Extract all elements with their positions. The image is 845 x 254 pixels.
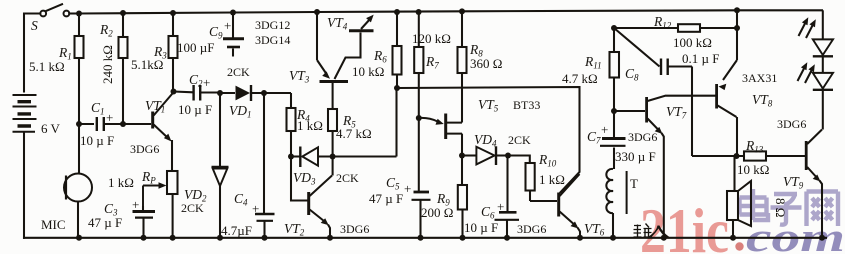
svg-text:+: + bbox=[601, 122, 608, 137]
wire R4 node down to VT2 base bbox=[291, 157, 308, 201]
resistor R4 bbox=[264, 93, 323, 157]
svg-text:5.1 kΩ: 5.1 kΩ bbox=[29, 59, 65, 74]
svg-text:100 µF: 100 µF bbox=[177, 40, 214, 55]
svg-text:+: + bbox=[252, 201, 259, 216]
svg-text:+: + bbox=[224, 18, 231, 33]
svg-text:S: S bbox=[31, 18, 38, 33]
svg-text:21ic: 21ic bbox=[640, 196, 729, 254]
node G: R6 bottom junction bbox=[394, 85, 400, 91]
resistor R7 bbox=[412, 12, 451, 118]
transistor VT8 bbox=[717, 10, 778, 156]
LED D2 bbox=[813, 73, 833, 130]
svg-text:10 kΩ: 10 kΩ bbox=[737, 162, 769, 177]
node C: VT1 collector / R3 / C2 junction bbox=[171, 89, 177, 95]
capacitor C7 bbox=[587, 111, 656, 169]
resistor R5 bbox=[328, 83, 372, 176]
svg-text:3DG6: 3DG6 bbox=[517, 222, 546, 236]
node J: VD4 cathode / C6 / R10 junction bbox=[505, 153, 511, 159]
capacitor C9 bbox=[177, 13, 244, 57]
transistor VT4 bbox=[255, 15, 374, 47]
transistor VT7 bbox=[614, 96, 716, 238]
input terminal label shuru bbox=[634, 224, 671, 238]
transistor VT6 bbox=[517, 174, 605, 238]
watermark dianziwang purple glyphs bbox=[740, 189, 839, 226]
wire left branch from switch to battery bbox=[24, 14, 40, 92]
diode VD4 bbox=[462, 132, 531, 165]
wire R6 node to VT6 collector bbox=[397, 87, 580, 193]
node M: R12 right / VT8 emitter riser bbox=[692, 153, 740, 159]
diode VD2 bbox=[181, 93, 229, 238]
svg-text:2CK: 2CK bbox=[336, 171, 359, 185]
svg-text:T: T bbox=[630, 176, 638, 191]
svg-text:3DG6: 3DG6 bbox=[340, 222, 369, 236]
svg-text:1 kΩ: 1 kΩ bbox=[108, 175, 134, 190]
resistor R1 bbox=[29, 14, 84, 125]
svg-text:1 kΩ: 1 kΩ bbox=[297, 118, 323, 133]
svg-text:3DG6: 3DG6 bbox=[130, 142, 159, 156]
svg-text:+: + bbox=[106, 110, 113, 125]
svg-text:120 kΩ: 120 kΩ bbox=[412, 31, 451, 46]
transistor VT1 bbox=[130, 93, 173, 157]
node L: R11 bottom / VT7 base / C7 junction bbox=[611, 108, 617, 114]
svg-text:+: + bbox=[497, 199, 504, 214]
watermark .com purple text bbox=[746, 214, 845, 254]
svg-text:10 µ F: 10 µ F bbox=[178, 102, 212, 117]
node K: R11/R12/C8 junction bbox=[611, 25, 740, 31]
node E: VD1 cathode junction bbox=[261, 90, 267, 96]
svg-text:10 µ F: 10 µ F bbox=[80, 133, 114, 148]
svg-text:6 V: 6 V bbox=[41, 121, 61, 136]
capacitor C6 bbox=[464, 156, 519, 238]
svg-text:+: + bbox=[132, 197, 139, 212]
ground rail junction dots bbox=[76, 235, 825, 241]
svg-text:3DG6: 3DG6 bbox=[777, 117, 806, 131]
svg-text:3DG12: 3DG12 bbox=[255, 18, 290, 32]
resistor R2 bbox=[99, 13, 128, 124]
capacitor C4 bbox=[221, 93, 275, 238]
resistor R10 bbox=[508, 152, 565, 201]
node D: C2/VD2 junction bbox=[217, 90, 223, 96]
node H: R7/VT5 emitter junction bbox=[416, 115, 422, 121]
svg-text:0.1 µ F: 0.1 µ F bbox=[682, 51, 719, 66]
svg-text:1 kΩ: 1 kΩ bbox=[539, 172, 565, 187]
node A: R1 top rail junction bbox=[76, 7, 740, 16]
LED D2 light arrows bbox=[798, 62, 815, 83]
LED D1 bbox=[813, 10, 833, 72]
wire C8 output down to VT8 base row bbox=[691, 67, 693, 157]
capacitor C2 bbox=[174, 72, 221, 117]
resistor R11 bbox=[562, 28, 619, 111]
node B: R1/C1/MIC junction bbox=[76, 121, 126, 127]
capacitor C3 bbox=[88, 197, 155, 238]
transistor VT9 bbox=[777, 117, 822, 238]
svg-text:MIC: MIC bbox=[41, 217, 66, 232]
node I: VT5 B1 / R9 / VD4 junction bbox=[459, 153, 465, 159]
battery 6V bbox=[13, 95, 37, 132]
resistor R12 bbox=[614, 14, 737, 50]
resistor R9 bbox=[421, 156, 467, 238]
svg-text:10 kΩ: 10 kΩ bbox=[352, 64, 384, 79]
svg-text:200 Ω: 200 Ω bbox=[421, 205, 453, 220]
wire switch to R1 node bbox=[69, 12, 76, 14]
svg-text:240 kΩ: 240 kΩ bbox=[100, 45, 115, 84]
svg-text:BT33: BT33 bbox=[513, 98, 540, 112]
svg-text:4.7µF: 4.7µF bbox=[221, 223, 252, 238]
svg-text:8 Ω: 8 Ω bbox=[773, 198, 788, 217]
svg-text:47 µ F: 47 µ F bbox=[88, 215, 122, 230]
svg-text:2CK: 2CK bbox=[181, 201, 204, 215]
resistor R3 bbox=[131, 13, 178, 91]
watermark 21ic red text bbox=[640, 196, 744, 254]
transistor VT2 bbox=[284, 176, 369, 238]
svg-text:3DG14: 3DG14 bbox=[255, 33, 290, 47]
node F: R4/VD3 junction bbox=[288, 154, 336, 160]
transistor VT3 bbox=[289, 12, 361, 85]
svg-text:10 µ F: 10 µ F bbox=[464, 220, 498, 235]
svg-text:360 Ω: 360 Ω bbox=[470, 56, 502, 71]
wire VD3 row riser to R6 node bbox=[395, 88, 397, 157]
potentiometer Rp bbox=[108, 140, 178, 238]
wire top supply rail bbox=[79, 10, 822, 13]
loudspeaker 8 ohm bbox=[727, 156, 788, 238]
switch S bbox=[40, 4, 69, 17]
svg-text:2CK: 2CK bbox=[227, 65, 250, 79]
svg-text:+: + bbox=[203, 75, 210, 90]
svg-text:100 kΩ: 100 kΩ bbox=[673, 35, 712, 50]
svg-text:3AX31: 3AX31 bbox=[742, 71, 777, 85]
microphone MIC bbox=[41, 124, 92, 238]
svg-text:4.7 kΩ: 4.7 kΩ bbox=[336, 126, 372, 141]
svg-text:2CK: 2CK bbox=[508, 133, 531, 147]
resistor R8 bbox=[458, 11, 503, 122]
unijunction transistor VT5 bbox=[419, 97, 541, 156]
wire battery negative to bottom rail bbox=[23, 133, 25, 238]
resistor R13 bbox=[692, 138, 806, 177]
svg-text:+: + bbox=[404, 181, 411, 196]
svg-text:47 µ F: 47 µ F bbox=[369, 191, 403, 206]
svg-text:4.7 kΩ: 4.7 kΩ bbox=[562, 71, 598, 86]
resistor R6 bbox=[352, 12, 402, 88]
wire bottom ground rail bbox=[24, 237, 826, 239]
capacitor C5 bbox=[369, 118, 431, 238]
LED D1 light arrows bbox=[799, 17, 816, 38]
inductor T primary winding bbox=[606, 169, 638, 238]
capacitor C1 bbox=[79, 100, 151, 148]
diode VD1 bbox=[220, 65, 264, 120]
capacitor C8 bbox=[614, 28, 719, 83]
svg-text:3DG6: 3DG6 bbox=[628, 130, 657, 144]
svg-text:5.1kΩ: 5.1kΩ bbox=[131, 57, 163, 72]
diode VD3 bbox=[291, 147, 397, 187]
svg-text:330 µ F: 330 µ F bbox=[615, 149, 656, 164]
